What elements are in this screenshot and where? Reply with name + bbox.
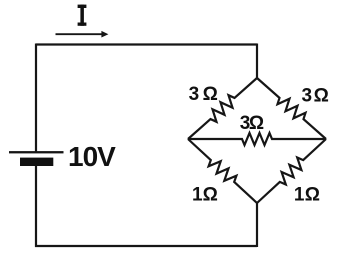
wire: bottom horizontal	[35, 245, 257, 247]
wire: drop from top wire to bridge top node	[256, 44, 258, 79]
svg-text:3Ω: 3Ω	[189, 84, 218, 105]
svg-text:3Ω: 3Ω	[302, 85, 329, 106]
svg-text:10V: 10V	[68, 141, 116, 172]
wire: top horizontal	[36, 43, 257, 45]
wire: riser from bottom wire to bridge bottom node	[256, 203, 258, 247]
battery V1: positive plate (long thin)	[9, 151, 64, 153]
svg-text:3Ω: 3Ω	[240, 113, 264, 134]
wire: left side upper (battery + to top-left corner)	[35, 44, 37, 152]
resistor 3Ω (top-left bridge arm, node T to node L)	[188, 78, 257, 139]
resistor 3Ω (middle bridge arm, node L to node R)	[188, 133, 326, 145]
label: current I (slab-serif capital I)	[78, 5, 87, 26]
battery V1: negative plate (short thick)	[20, 158, 53, 166]
svg-text:1Ω: 1Ω	[294, 184, 320, 205]
wire: left side lower (battery - to bottom-left corner)	[35, 162, 37, 247]
current direction arrow	[56, 31, 109, 38]
resistor 1Ω (bottom-right bridge arm, node R to node B)	[257, 139, 326, 203]
svg-text:1Ω: 1Ω	[192, 184, 218, 205]
resistor 1Ω (bottom-left bridge arm, node L to node B)	[188, 139, 257, 203]
resistor 3Ω (top-right bridge arm, node T to node R)	[257, 78, 326, 139]
